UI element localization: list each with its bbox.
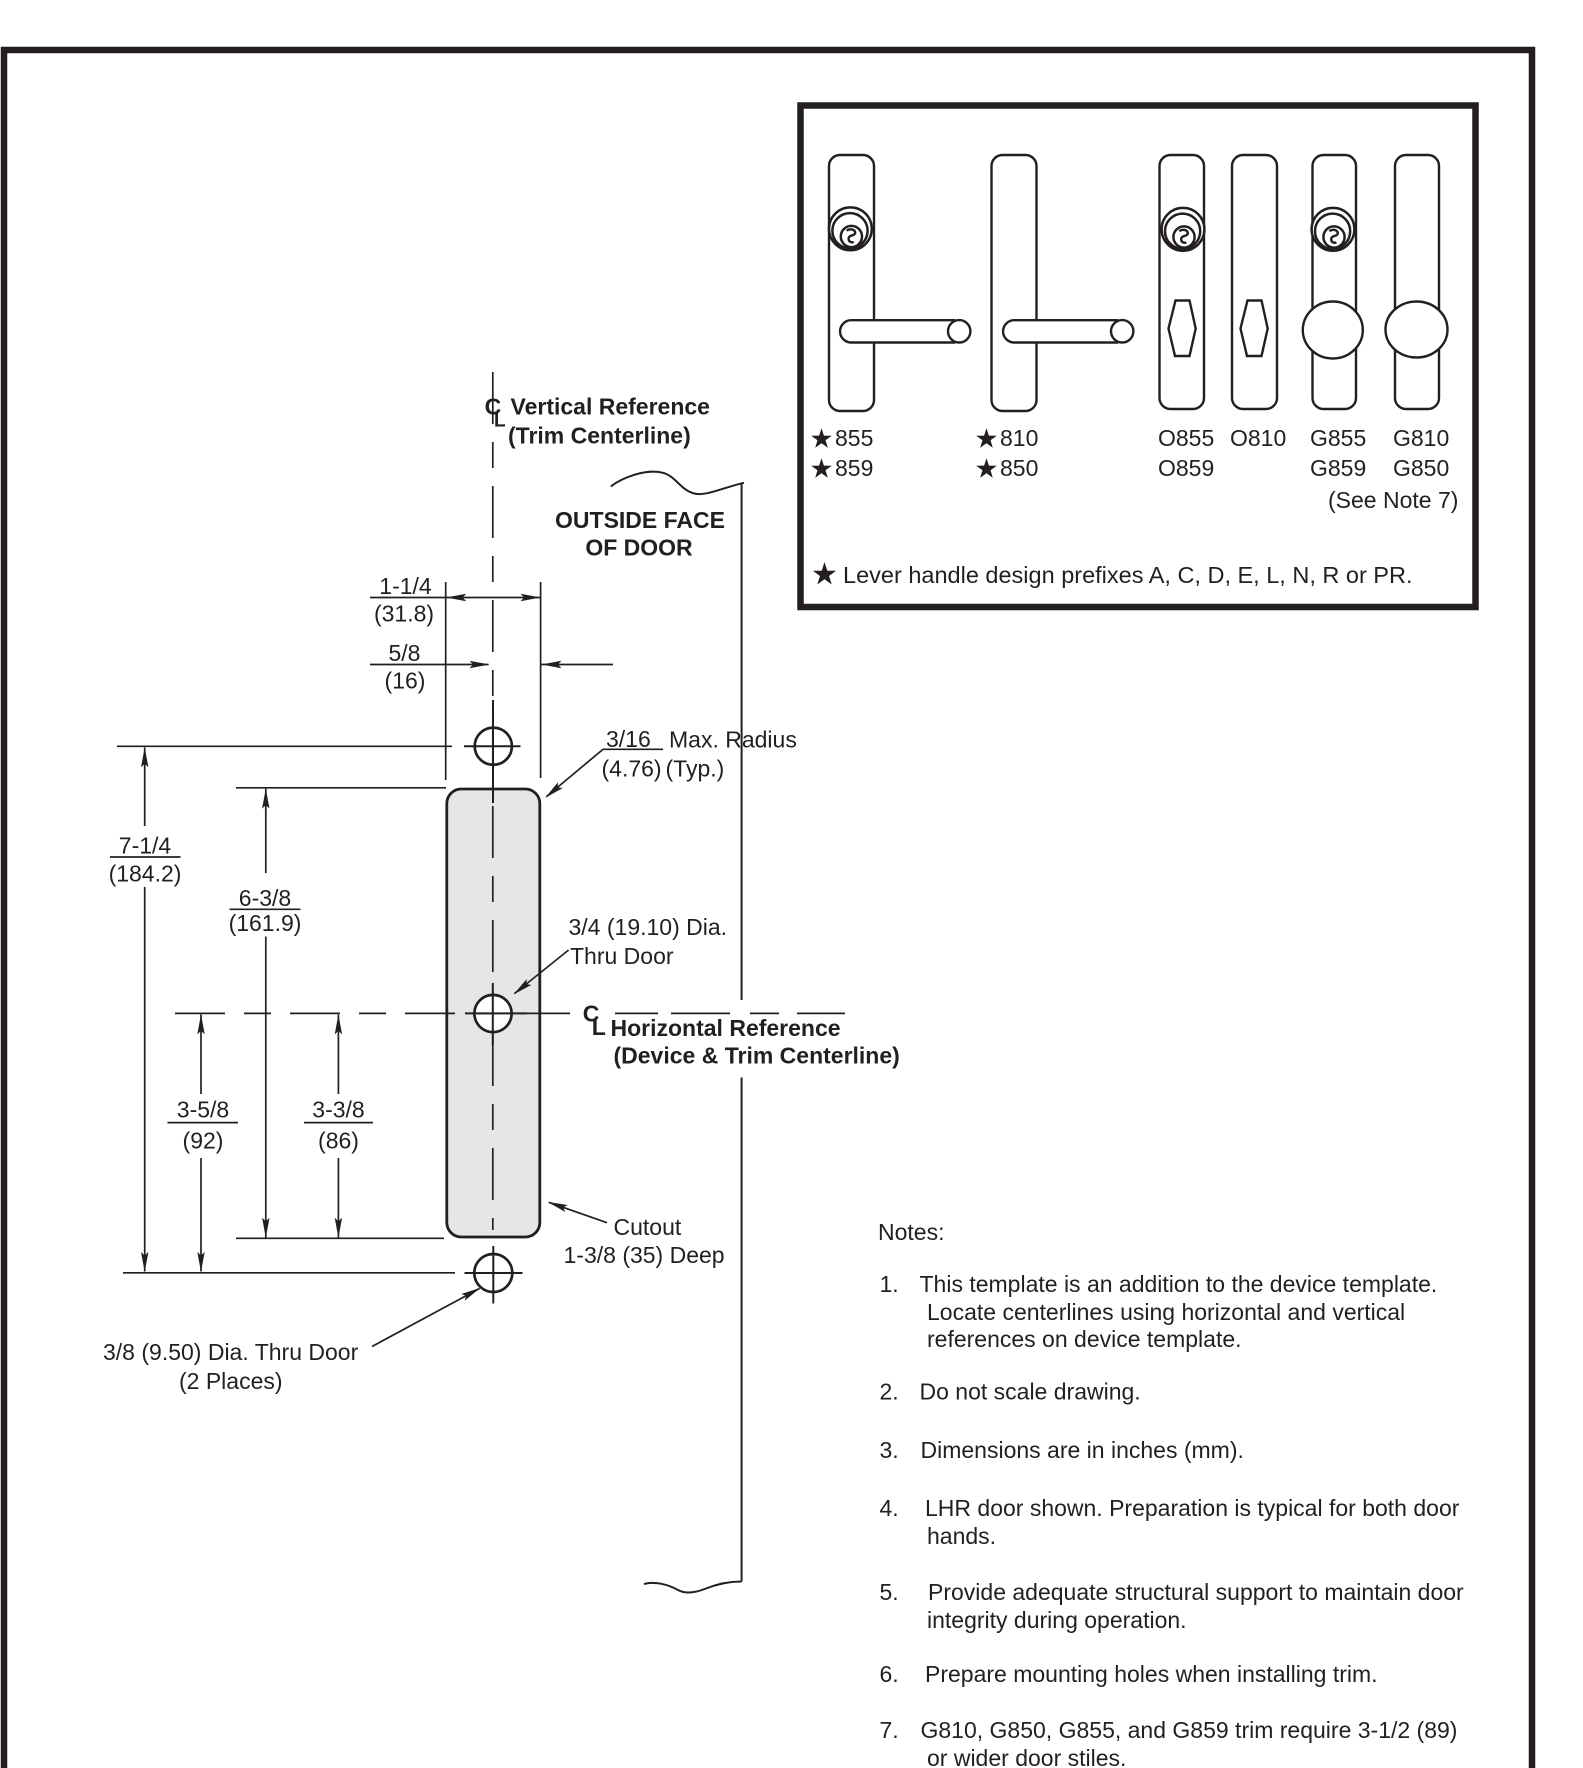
svg-text:O810: O810	[1230, 425, 1286, 451]
svg-text:Notes:: Notes:	[878, 1219, 944, 1245]
svg-text:(86): (86)	[318, 1128, 359, 1154]
svg-text:Locate centerlines using horiz: Locate centerlines using horizontal and …	[927, 1299, 1405, 1325]
svg-text:G859: G859	[1310, 455, 1366, 481]
svg-text:5.: 5.	[880, 1579, 899, 1605]
svg-text:O855: O855	[1158, 425, 1214, 451]
svg-text:OUTSIDE FACE: OUTSIDE FACE	[555, 507, 725, 533]
svg-text:Cutout: Cutout	[614, 1214, 682, 1240]
svg-text:LHR door shown. Preparation is: LHR door shown. Preparation is typical f…	[925, 1495, 1460, 1521]
svg-text:references on device template.: references on device template.	[927, 1326, 1242, 1352]
svg-text:Dimensions are in inches (mm).: Dimensions are in inches (mm).	[921, 1437, 1244, 1463]
svg-text:1-1/4: 1-1/4	[379, 573, 432, 599]
svg-text:Vertical Reference: Vertical Reference	[511, 394, 710, 420]
svg-text:Thru Door: Thru Door	[570, 943, 674, 969]
svg-text:5/8: 5/8	[389, 640, 421, 666]
svg-text:3/4 (19.10) Dia.: 3/4 (19.10) Dia.	[569, 914, 728, 940]
svg-text:Prepare mounting holes when in: Prepare mounting holes when installing t…	[925, 1661, 1378, 1687]
svg-text:This template is an addition t: This template is an addition to the devi…	[920, 1271, 1438, 1297]
svg-text:6-3/8: 6-3/8	[239, 885, 291, 911]
svg-text:(4.76): (4.76)	[602, 756, 662, 782]
svg-text:855: 855	[835, 425, 873, 451]
svg-text:(See Note 7): (See Note 7)	[1328, 487, 1458, 513]
svg-text:7.: 7.	[880, 1717, 899, 1743]
svg-text:or wider door stiles.: or wider door stiles.	[927, 1745, 1126, 1768]
svg-text:(2 Places): (2 Places)	[179, 1368, 283, 1394]
svg-text:1.: 1.	[880, 1271, 899, 1297]
svg-text:3.: 3.	[880, 1437, 899, 1463]
svg-text:L: L	[592, 1014, 606, 1040]
svg-text:(Trim Centerline): (Trim Centerline)	[508, 423, 691, 449]
svg-text:(31.8): (31.8)	[374, 601, 434, 627]
svg-text:G810, G850, G855, and G859 tri: G810, G850, G855, and G859 trim require …	[921, 1717, 1458, 1743]
svg-text:Horizontal Reference: Horizontal Reference	[611, 1015, 841, 1041]
svg-text:3/16: 3/16	[606, 726, 651, 752]
svg-text:3-3/8: 3-3/8	[312, 1097, 364, 1123]
svg-text:3-5/8: 3-5/8	[177, 1097, 229, 1123]
svg-text:G850: G850	[1393, 455, 1449, 481]
svg-text:3/8 (9.50) Dia. Thru Door: 3/8 (9.50) Dia. Thru Door	[103, 1339, 359, 1365]
svg-text:L: L	[494, 411, 506, 432]
svg-text:4.: 4.	[880, 1495, 899, 1521]
svg-text:(184.2): (184.2)	[109, 861, 182, 887]
svg-text:OF DOOR: OF DOOR	[585, 535, 693, 561]
svg-text:2.: 2.	[880, 1379, 899, 1405]
svg-text:(161.9): (161.9)	[229, 910, 302, 936]
svg-text:(92): (92)	[183, 1128, 224, 1154]
svg-text:G855: G855	[1310, 425, 1366, 451]
svg-text:integrity during operation.: integrity during operation.	[927, 1607, 1187, 1633]
svg-text:Provide adequate structural su: Provide adequate structural support to m…	[928, 1579, 1464, 1605]
svg-text:O859: O859	[1158, 455, 1214, 481]
svg-text:hands.: hands.	[927, 1523, 996, 1549]
svg-text:(Typ.): (Typ.)	[666, 756, 725, 782]
svg-text:(16): (16)	[385, 668, 426, 694]
svg-text:Max. Radius: Max. Radius	[669, 727, 797, 753]
svg-text:1-3/8 (35) Deep: 1-3/8 (35) Deep	[564, 1242, 725, 1268]
svg-text:Do not scale drawing.: Do not scale drawing.	[920, 1379, 1141, 1405]
svg-text:G810: G810	[1393, 425, 1449, 451]
svg-text:859: 859	[835, 455, 873, 481]
svg-text:850: 850	[1000, 455, 1038, 481]
svg-text:810: 810	[1000, 425, 1038, 451]
svg-text:(Device & Trim Centerline): (Device & Trim Centerline)	[614, 1043, 900, 1069]
svg-text:7-1/4: 7-1/4	[119, 833, 172, 859]
svg-text:6.: 6.	[880, 1661, 899, 1687]
svg-text:Lever handle design prefixes A: Lever handle design prefixes A, C, D, E,…	[843, 562, 1413, 588]
